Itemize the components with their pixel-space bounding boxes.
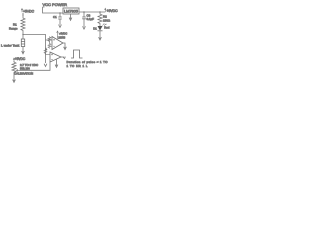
- svg-text:1 TO HR 1 L: 1 TO HR 1 L: [67, 64, 88, 68]
- power + flag U1B: [45, 48, 47, 52]
- svg-text:D1: D1: [93, 27, 97, 31]
- svg-text:+5VDC: +5VDC: [23, 9, 35, 13]
- ground arrow under C3: [83, 26, 86, 29]
- op-amp U1A: [52, 37, 63, 50]
- probe L under Tank: [21, 35, 24, 47]
- svg-text:C1: C1: [53, 15, 57, 19]
- label R4 texts: [14, 63, 38, 76]
- label R2 value: [103, 15, 111, 23]
- resistor R3 input network: [48, 37, 51, 43]
- resistor R2: [98, 12, 102, 26]
- svg-text:LM358: LM358: [58, 36, 66, 39]
- svg-text:LM7805: LM7805: [64, 9, 79, 14]
- junction R2: [99, 11, 101, 13]
- ground arrow under probe: [22, 47, 25, 54]
- node +5VDC calibration flag: [13, 57, 26, 62]
- wire input plus: [46, 40, 53, 49]
- svg-text:0.1µF: 0.1µF: [87, 17, 95, 21]
- LED D1: [93, 24, 110, 31]
- svg-text:Red: Red: [104, 26, 110, 30]
- svg-text:L under Tank: L under Tank: [1, 43, 20, 47]
- wire +5V rail: [79, 11, 105, 13]
- svg-text:CALIBRATION: CALIBRATION: [14, 72, 33, 76]
- ground arrow under C1: [59, 25, 62, 28]
- svg-text:50k 2%: 50k 2%: [20, 67, 30, 71]
- resistor R1 (Range): [21, 17, 25, 35]
- label C3 value: [87, 13, 95, 21]
- waveform pulse icon: [71, 50, 83, 58]
- capacitor C1: [58, 13, 62, 25]
- junction C1: [59, 12, 61, 14]
- power +5V to U1A: [57, 31, 68, 37]
- wire output U1A down-arrow: [63, 43, 66, 50]
- capacitor C3: [82, 12, 86, 27]
- svg-text:+5VDC: +5VDC: [15, 57, 26, 61]
- junction C3: [83, 11, 85, 13]
- ground arrow under LED: [99, 31, 102, 40]
- wire VCC POWER input: [43, 7, 64, 13]
- svg-text:+5VDC: +5VDC: [107, 9, 119, 13]
- junction probe node: [22, 34, 23, 35]
- regulator U2 LM7805: [63, 8, 79, 14]
- wire from +5VDC flag to R1: [22, 13, 24, 17]
- ground arrow under R4: [13, 76, 16, 82]
- node +5VDC top-left power flag: [21, 9, 23, 17]
- resistor R5 series into U1B: [44, 48, 50, 54]
- ground arrow under regulator: [69, 14, 72, 20]
- node +5VDC rail label: [105, 8, 119, 13]
- wire calibration to U1B minus: [20, 62, 51, 70]
- label R1 Range: [9, 22, 18, 30]
- ground arrow under U1B: [55, 60, 58, 68]
- wire output U1B to pulse: [61, 57, 65, 59]
- svg-text:180Ω: 180Ω: [103, 18, 111, 22]
- svg-text:VCC POWER: VCC POWER: [43, 2, 68, 7]
- op-amp U1B: [50, 52, 61, 62]
- label duration text: [67, 60, 109, 68]
- ground arrow left of U1B: [44, 64, 47, 67]
- svg-text:+5VDC: +5VDC: [59, 32, 67, 35]
- wire node to comparator: [23, 35, 46, 64]
- svg-text:Range: Range: [9, 26, 18, 30]
- potentiometer R4 CALIBRATION: [12, 61, 20, 76]
